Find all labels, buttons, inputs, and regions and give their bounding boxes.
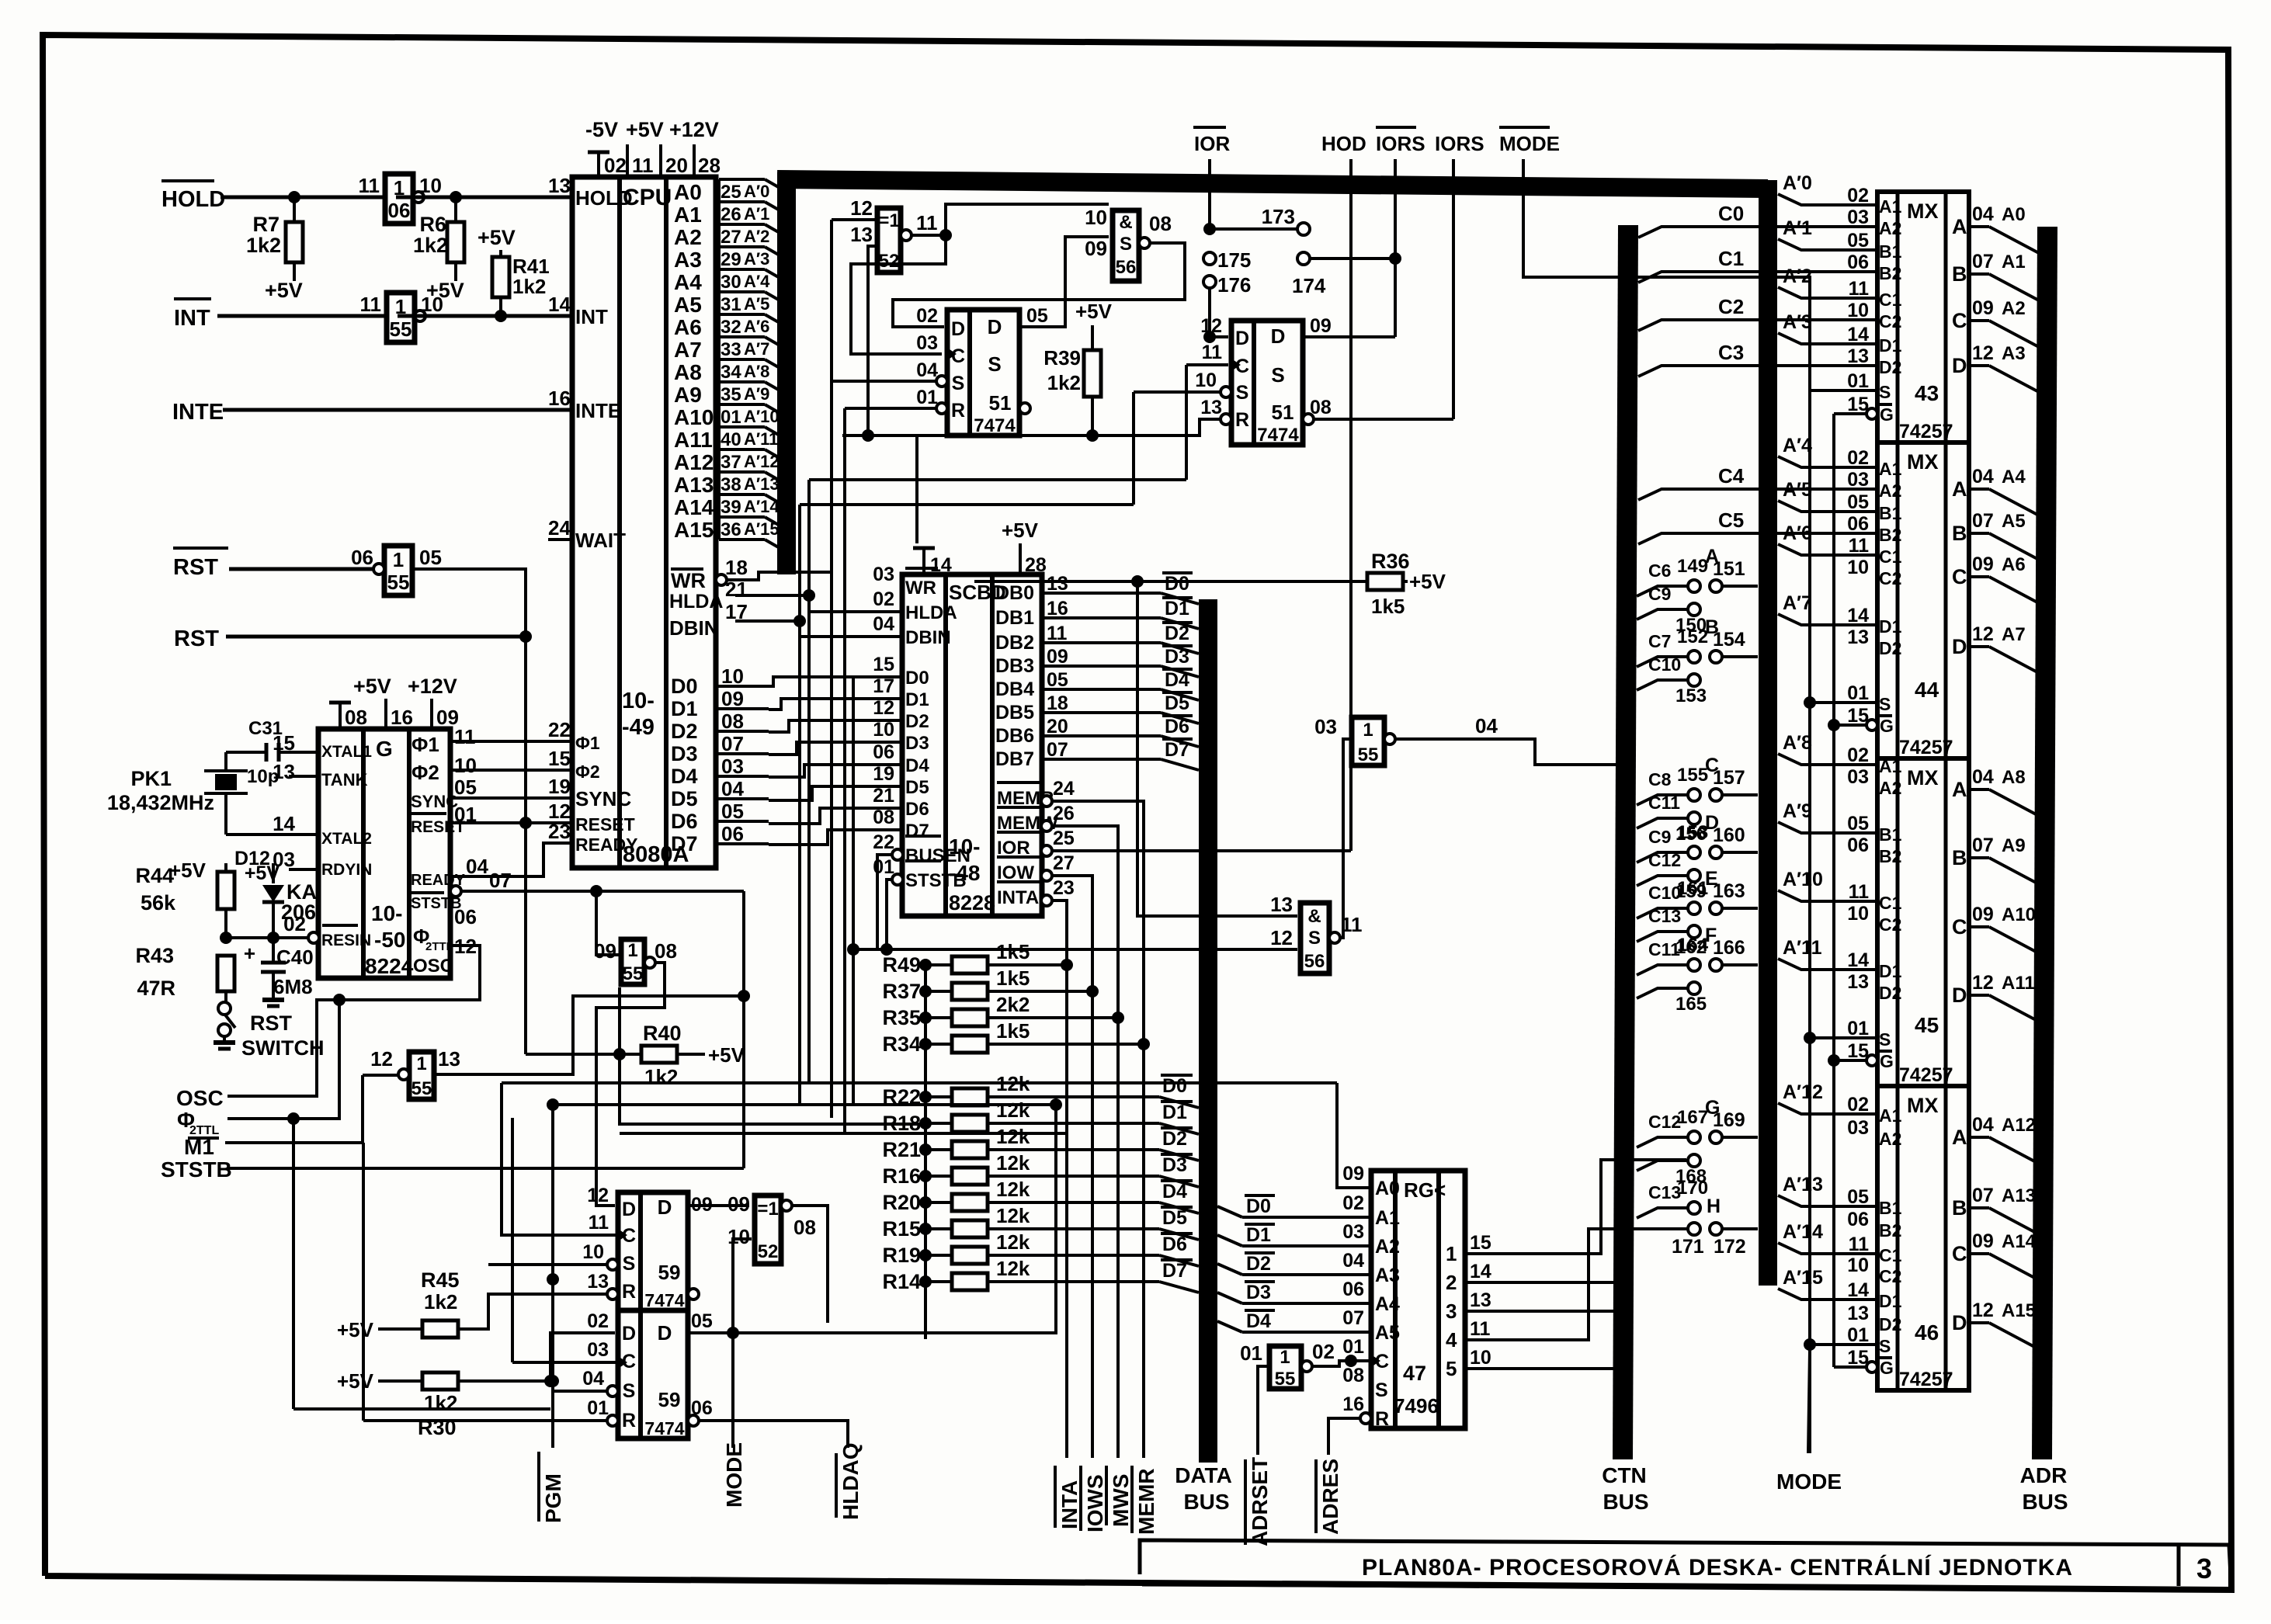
svg-text:S: S (1375, 1379, 1388, 1401)
IC register 47 7496 (RG) (1360, 1171, 1465, 1428)
svg-text:A8: A8 (674, 360, 702, 384)
svg-text:D4: D4 (1165, 669, 1189, 691)
svg-text:12k: 12k (996, 1257, 1030, 1280)
svg-text:161: 161 (1677, 878, 1708, 899)
svg-text:CTN: CTN (1602, 1463, 1647, 1487)
svg-text:R: R (1235, 409, 1249, 431)
svg-text:2: 2 (1446, 1271, 1457, 1294)
svg-text:166: 166 (1713, 937, 1745, 959)
svg-text:A2: A2 (1879, 481, 1901, 501)
svg-text:C: C (1952, 565, 1967, 588)
wire FF51a S input (832, 380, 936, 383)
svg-text:A′9: A′9 (744, 384, 769, 404)
svg-text:A11: A11 (674, 428, 713, 452)
svg-text:A4: A4 (2002, 467, 2026, 488)
svg-text:14: 14 (1470, 1261, 1491, 1282)
svg-text:13: 13 (1470, 1289, 1491, 1311)
svg-text:B1: B1 (1879, 503, 1902, 523)
svg-text:OSC: OSC (413, 956, 453, 977)
wires DATA BUS to 7496 A1-A5 (1217, 1195, 1371, 1332)
contact group B (152 154 153) (1637, 616, 1758, 706)
svg-text:1k5: 1k5 (996, 940, 1030, 963)
svg-text:A2: A2 (674, 225, 702, 249)
svg-text:A13: A13 (2002, 1185, 2036, 1206)
svg-text:R: R (622, 1281, 636, 1303)
svg-text:160: 160 (1713, 824, 1745, 846)
svg-text:A10: A10 (2002, 904, 2036, 925)
svg-text:7474: 7474 (644, 1290, 684, 1310)
svg-text:MX: MX (1907, 1094, 1939, 1117)
svg-text:HOD: HOD (1321, 132, 1366, 155)
svg-text:Φ2: Φ2 (411, 761, 439, 784)
svg-text:D: D (622, 1323, 636, 1345)
svg-text:176: 176 (1217, 273, 1251, 297)
svg-text:27: 27 (1053, 852, 1075, 874)
wire gate52 output node (851, 204, 1109, 354)
svg-text:11: 11 (632, 154, 654, 177)
svg-text:11: 11 (1047, 623, 1068, 644)
svg-text:2k2: 2k2 (996, 993, 1030, 1016)
resistor R39 1k2 (1043, 300, 1112, 442)
svg-text:D7: D7 (905, 821, 929, 841)
svg-text:DATA: DATA (1175, 1463, 1232, 1487)
CPU address pins A0-A15 with bus entries (674, 179, 781, 549)
svg-text:B2: B2 (1879, 263, 1901, 283)
svg-text:B1: B1 (1879, 1198, 1902, 1218)
svg-text:D6: D6 (1162, 1234, 1187, 1255)
svg-text:31: 31 (721, 294, 741, 315)
S select line vertical (1804, 390, 1816, 1453)
svg-text:ADRSET: ADRSET (1248, 1457, 1272, 1546)
wire 8228 INTA down (1052, 900, 1067, 1458)
svg-text:R43: R43 (135, 944, 174, 967)
inverter gate 55b (594, 939, 677, 984)
svg-text:03: 03 (721, 755, 744, 778)
svg-text:R37: R37 (882, 980, 921, 1003)
wire gate55c output (434, 990, 750, 1074)
svg-text:+5V: +5V (337, 1369, 374, 1393)
wire 8228 BUSEN input (877, 855, 892, 949)
XOR gate 52b (727, 1192, 816, 1264)
svg-text:A: A (1952, 1126, 1967, 1149)
svg-text:C2: C2 (1879, 1266, 1901, 1286)
svg-text:04: 04 (1972, 466, 1994, 488)
svg-text:C3: C3 (1718, 341, 1744, 364)
svg-text:1k2: 1k2 (424, 1391, 457, 1414)
svg-text:A: A (1952, 477, 1967, 501)
svg-text:G: G (376, 737, 393, 761)
svg-text:INTA: INTA (1057, 1480, 1082, 1529)
wire gate56b output to gate55e (1340, 739, 1352, 938)
svg-text:05: 05 (691, 1310, 713, 1332)
svg-text:&: & (1307, 906, 1321, 927)
svg-text:D2: D2 (1879, 983, 1901, 1003)
svg-text:32: 32 (721, 317, 741, 338)
svg-text:26: 26 (1053, 803, 1075, 824)
svg-text:HOLD: HOLD (161, 187, 225, 212)
svg-text:13: 13 (1847, 1303, 1869, 1324)
svg-text:+5V: +5V (1075, 300, 1113, 323)
svg-text:MODE: MODE (722, 1442, 746, 1508)
svg-text:D1: D1 (1165, 598, 1189, 619)
svg-text:24: 24 (548, 516, 571, 540)
svg-text:07: 07 (1047, 739, 1068, 761)
svg-text:05: 05 (1847, 1186, 1869, 1208)
svg-text:1: 1 (1363, 720, 1373, 741)
svg-text:+12V: +12V (408, 675, 457, 698)
svg-text:11: 11 (1849, 881, 1870, 903)
svg-text:DB1: DB1 (995, 607, 1034, 629)
net IOR top (1193, 127, 1310, 235)
svg-text:IOR: IOR (997, 838, 1030, 859)
svg-text:S: S (1879, 694, 1891, 714)
AND gate 56 (&S) (1085, 206, 1172, 281)
svg-text:A0: A0 (674, 180, 702, 204)
svg-text:DB3: DB3 (995, 655, 1034, 677)
flip-flop 51a 7474 (916, 305, 1048, 436)
svg-text:A1: A1 (1879, 1105, 1902, 1126)
wires 8224 phi1 phi2 SYNC RESET to CPU (450, 741, 572, 823)
svg-text:05: 05 (1847, 230, 1869, 252)
net RST (174, 626, 526, 651)
svg-text:172: 172 (1714, 1236, 1746, 1258)
svg-text:09: 09 (1972, 297, 1994, 319)
resistor R43 47R (135, 944, 234, 1003)
wire FF51a Q to gate56 input 09 (1019, 237, 1109, 327)
svg-text:13: 13 (1847, 345, 1869, 367)
svg-text:A0: A0 (2002, 204, 2026, 225)
svg-text:44: 44 (1915, 678, 1939, 702)
svg-text:INTE: INTE (575, 399, 621, 422)
svg-text:52: 52 (758, 1241, 779, 1262)
svg-text:8224: 8224 (365, 954, 414, 978)
svg-text:11: 11 (1849, 535, 1870, 557)
svg-text:26: 26 (721, 204, 741, 225)
wire FF51b Q to IORS-bar (1303, 335, 1395, 338)
svg-text:05: 05 (419, 546, 442, 569)
svg-text:03: 03 (1847, 766, 1869, 788)
wire 8228 STSTB input (880, 880, 893, 956)
svg-text:DB0: DB0 (995, 582, 1034, 604)
flip-flop 59b 7474 (582, 1310, 713, 1438)
svg-text:D2: D2 (1879, 638, 1901, 658)
net MWS label (1106, 1466, 1133, 1527)
svg-text:G: G (1880, 1358, 1894, 1378)
contact group H (170 171 172) (1637, 1178, 1758, 1258)
svg-text:D1: D1 (905, 689, 929, 710)
svg-text:23: 23 (1053, 877, 1075, 899)
svg-text:14: 14 (1847, 1279, 1869, 1301)
junction RST to 8224 RESET (519, 630, 532, 829)
svg-text:5: 5 (1446, 1357, 1457, 1380)
svg-text:A11: A11 (2002, 973, 2035, 994)
IC multiplexer 43 74257 (1847, 185, 2039, 442)
svg-text:12: 12 (587, 1185, 609, 1206)
svg-text:+: + (244, 942, 255, 965)
svg-text:A′1: A′1 (744, 204, 769, 224)
contact group E (161 163 162) (1637, 868, 1758, 958)
svg-text:01: 01 (1847, 682, 1869, 704)
svg-text:D5: D5 (671, 787, 698, 810)
svg-text:D: D (951, 318, 965, 340)
svg-text:A14: A14 (2002, 1231, 2037, 1252)
junction phi2TTL (287, 1112, 300, 1409)
svg-text:A4: A4 (674, 270, 702, 294)
svg-text:MWS: MWS (1109, 1474, 1133, 1527)
svg-text:A1: A1 (674, 203, 702, 227)
svg-text:55: 55 (1275, 1369, 1296, 1390)
svg-text:39: 39 (721, 497, 741, 518)
svg-text:A13: A13 (674, 473, 714, 497)
svg-text:7474: 7474 (974, 415, 1016, 436)
svg-text:25: 25 (721, 182, 741, 203)
svg-text:13: 13 (1270, 893, 1293, 916)
svg-text:02: 02 (1847, 1094, 1869, 1116)
contact 175 (1203, 248, 1251, 272)
svg-text:10: 10 (1085, 206, 1107, 229)
svg-text:15: 15 (1470, 1232, 1491, 1254)
net HOD (1321, 132, 1366, 851)
svg-text:C1: C1 (1879, 547, 1902, 567)
wire CPU HLDA to 8228 HLDA (735, 595, 902, 612)
svg-text:157: 157 (1713, 767, 1745, 789)
svg-text:HOLD: HOLD (575, 186, 633, 210)
svg-text:INT: INT (174, 306, 210, 331)
ADR BUS bar (2042, 227, 2047, 1459)
svg-text:1k5: 1k5 (996, 966, 1030, 990)
svg-text:6M8: 6M8 (273, 975, 313, 998)
svg-text:R: R (1375, 1408, 1389, 1430)
resistor R36 1k5 pull-up (974, 550, 1446, 618)
svg-text:A′5: A′5 (744, 294, 769, 314)
svg-text:01: 01 (1240, 1341, 1262, 1365)
svg-text:A′8: A′8 (1783, 732, 1812, 754)
DATA BUS bar (1199, 599, 1217, 1463)
svg-text:D2: D2 (1246, 1253, 1271, 1275)
svg-text:S: S (1879, 1029, 1891, 1050)
svg-text:XTAL1: XTAL1 (321, 743, 372, 761)
svg-text:S: S (623, 1253, 636, 1275)
wire RESIN node (220, 932, 319, 944)
svg-text:A9: A9 (2002, 835, 2026, 856)
svg-text:IOWS: IOWS (1083, 1474, 1107, 1532)
svg-text:D0: D0 (1162, 1075, 1187, 1097)
svg-text:D: D (1952, 1311, 1967, 1334)
wire M1 to gate55c (363, 1074, 398, 1077)
svg-text:D0: D0 (1165, 573, 1189, 595)
svg-text:01: 01 (587, 1397, 609, 1419)
net RST-bar input (173, 548, 384, 580)
svg-text:S: S (1236, 382, 1249, 404)
svg-text:10: 10 (1195, 370, 1217, 391)
S G pin wires (1810, 390, 1877, 1372)
svg-text:S: S (988, 352, 1001, 376)
svg-text:153: 153 (1675, 685, 1707, 706)
svg-text:D6: D6 (671, 810, 698, 833)
svg-text:08: 08 (655, 939, 677, 963)
svg-text:XTAL2: XTAL2 (321, 830, 372, 848)
svg-text:RST: RST (174, 626, 219, 651)
svg-text:02: 02 (1312, 1340, 1335, 1363)
svg-text:R20: R20 (882, 1191, 921, 1214)
svg-text:59: 59 (658, 1261, 681, 1284)
label DATA BUS (1175, 1463, 1232, 1514)
contact group A (149 151 150) (1637, 546, 1758, 636)
svg-text:12k: 12k (996, 1204, 1030, 1227)
svg-text:A6: A6 (2002, 554, 2026, 575)
svg-text:22: 22 (548, 718, 571, 741)
svg-text:07: 07 (1972, 251, 1994, 272)
wire MODE riser to gate52b input 10 (727, 1239, 752, 1448)
svg-text:A5: A5 (674, 293, 702, 317)
wire FF59a S input (488, 1263, 607, 1266)
svg-text:A′10: A′10 (1783, 869, 1823, 890)
svg-text:Φ1: Φ1 (575, 733, 600, 753)
svg-text:C2: C2 (1879, 914, 1901, 935)
svg-text:Φ1: Φ1 (411, 733, 439, 756)
svg-text:16: 16 (548, 387, 571, 410)
resistor R21 12k (882, 1125, 1199, 1161)
svg-text:155: 155 (1677, 765, 1708, 786)
wire FF59a C input (502, 1083, 616, 1235)
svg-text:D0: D0 (671, 675, 698, 698)
svg-text:1: 1 (416, 1053, 426, 1074)
svg-text:1k2: 1k2 (424, 1290, 457, 1313)
svg-text:C2: C2 (1879, 311, 1901, 331)
wire TANK stub (289, 776, 318, 869)
svg-text:11: 11 (916, 211, 938, 234)
svg-text:08: 08 (345, 706, 367, 729)
svg-text:C7: C7 (1648, 631, 1671, 651)
svg-text:170: 170 (1677, 1178, 1708, 1199)
svg-text:A12: A12 (674, 450, 714, 474)
net PGM (539, 1105, 565, 1523)
svg-text:PLAN80A- PROCESOROVÁ DESKA- C: PLAN80A- PROCESOROVÁ DESKA- CENTRÁLNÍ JE… (1362, 1554, 2073, 1581)
svg-text:D2: D2 (1879, 1314, 1901, 1334)
svg-text:R35: R35 (882, 1006, 921, 1029)
svg-text:PGM: PGM (541, 1473, 565, 1523)
contact group F (164 166 165) (1637, 925, 1758, 1015)
wire gate52 input 13 (868, 246, 877, 435)
svg-text:BUS: BUS (1183, 1490, 1229, 1514)
wire CPU WR up to gates (727, 220, 832, 580)
wire 8228 MEMW down (MWS) (1052, 826, 1118, 1458)
svg-text:A3: A3 (1375, 1265, 1400, 1286)
svg-text:D: D (988, 315, 1002, 338)
resistor R6 1k2 pull to +5V (413, 197, 464, 302)
svg-text:08: 08 (873, 807, 894, 828)
svg-text:14: 14 (273, 812, 295, 835)
svg-text:A6: A6 (674, 315, 702, 339)
svg-text:11: 11 (589, 1212, 609, 1234)
net ADRSET (1245, 1366, 1272, 1546)
svg-text:D: D (1952, 984, 1967, 1007)
svg-text:A12: A12 (2002, 1115, 2036, 1136)
net INTE (172, 400, 572, 425)
svg-text:19: 19 (873, 763, 894, 785)
label ADR BUS (2020, 1463, 2068, 1514)
svg-text:A2: A2 (1879, 218, 1901, 238)
svg-text:A7: A7 (674, 338, 702, 362)
svg-text:A′3: A′3 (744, 249, 769, 269)
svg-text:01: 01 (1847, 1324, 1869, 1346)
svg-text:1k2: 1k2 (644, 1065, 678, 1088)
svg-text:16: 16 (391, 706, 413, 729)
svg-text:74257: 74257 (1899, 421, 1953, 442)
svg-text:C4: C4 (1718, 464, 1745, 488)
svg-text:43: 43 (1915, 381, 1939, 405)
svg-text:09: 09 (1085, 237, 1107, 260)
wire comb verticals (620, 381, 1067, 1133)
resistor R19 12k (882, 1230, 1199, 1267)
svg-text:A′10: A′10 (744, 407, 780, 426)
svg-text:55: 55 (387, 571, 410, 594)
svg-text:10: 10 (873, 719, 894, 741)
svg-text:D7: D7 (1162, 1260, 1187, 1282)
wire gate55b output to FF59a D (596, 963, 665, 1206)
svg-text:+5V: +5V (708, 1043, 745, 1067)
svg-text:B1: B1 (1879, 241, 1902, 262)
svg-text:+5V: +5V (337, 1318, 374, 1341)
8228 strobe outputs MEMR MEMW IOR IOW INTA (997, 778, 1075, 908)
svg-text:20: 20 (665, 154, 688, 177)
net ADRES (1316, 1418, 1360, 1535)
svg-text:S: S (1879, 1336, 1891, 1356)
svg-text:14: 14 (930, 554, 952, 576)
svg-text:A2: A2 (2002, 298, 2026, 319)
net MEMR label (1132, 1466, 1158, 1535)
svg-text:D2: D2 (905, 711, 929, 732)
svg-text:09: 09 (1972, 1230, 1994, 1252)
resistor R37 1k5 (882, 966, 1099, 1003)
svg-text:&: & (1119, 212, 1132, 233)
svg-text:C13: C13 (1648, 906, 1681, 926)
svg-text:A1: A1 (1879, 196, 1902, 217)
svg-text:D: D (1952, 354, 1967, 377)
svg-text:164: 164 (1677, 935, 1709, 956)
wire 8224 READY to CPU READY (450, 843, 572, 876)
svg-text:MODE: MODE (1776, 1470, 1842, 1494)
svg-text:+5V: +5V (169, 859, 207, 882)
wire node 561 to FF51b R (842, 419, 1220, 543)
svg-text:A1: A1 (1879, 756, 1902, 776)
svg-text:34: 34 (721, 362, 741, 383)
G enable line vertical (1828, 414, 1840, 1367)
svg-text:28: 28 (698, 154, 721, 177)
svg-text:D6: D6 (905, 799, 929, 820)
wire bundle CPU D0-D7 to 8228 (769, 677, 902, 845)
svg-text:1: 1 (393, 548, 404, 571)
svg-text:01: 01 (1342, 1336, 1364, 1358)
svg-text:158: 158 (1677, 822, 1708, 843)
svg-text:01: 01 (916, 387, 938, 408)
svg-text:INT: INT (575, 305, 608, 328)
svg-text:BUS: BUS (2022, 1490, 2068, 1514)
svg-text:35: 35 (721, 384, 741, 405)
svg-text:12: 12 (1972, 623, 1994, 645)
svg-text:14: 14 (1847, 949, 1869, 971)
svg-text:B2: B2 (1879, 846, 1901, 866)
net STSTB bottom-left (161, 1157, 744, 1182)
8228 right pins DB0-DB7 (995, 573, 1095, 770)
svg-text:DB6: DB6 (995, 725, 1034, 747)
diode D12 KA206 (234, 848, 317, 938)
svg-text:05: 05 (1847, 491, 1869, 513)
svg-text:28: 28 (1025, 554, 1047, 576)
flip-flop 59a 7474 (582, 1185, 713, 1310)
svg-text:09: 09 (1972, 553, 1994, 575)
long horizontal 1395 (502, 1081, 1337, 1084)
